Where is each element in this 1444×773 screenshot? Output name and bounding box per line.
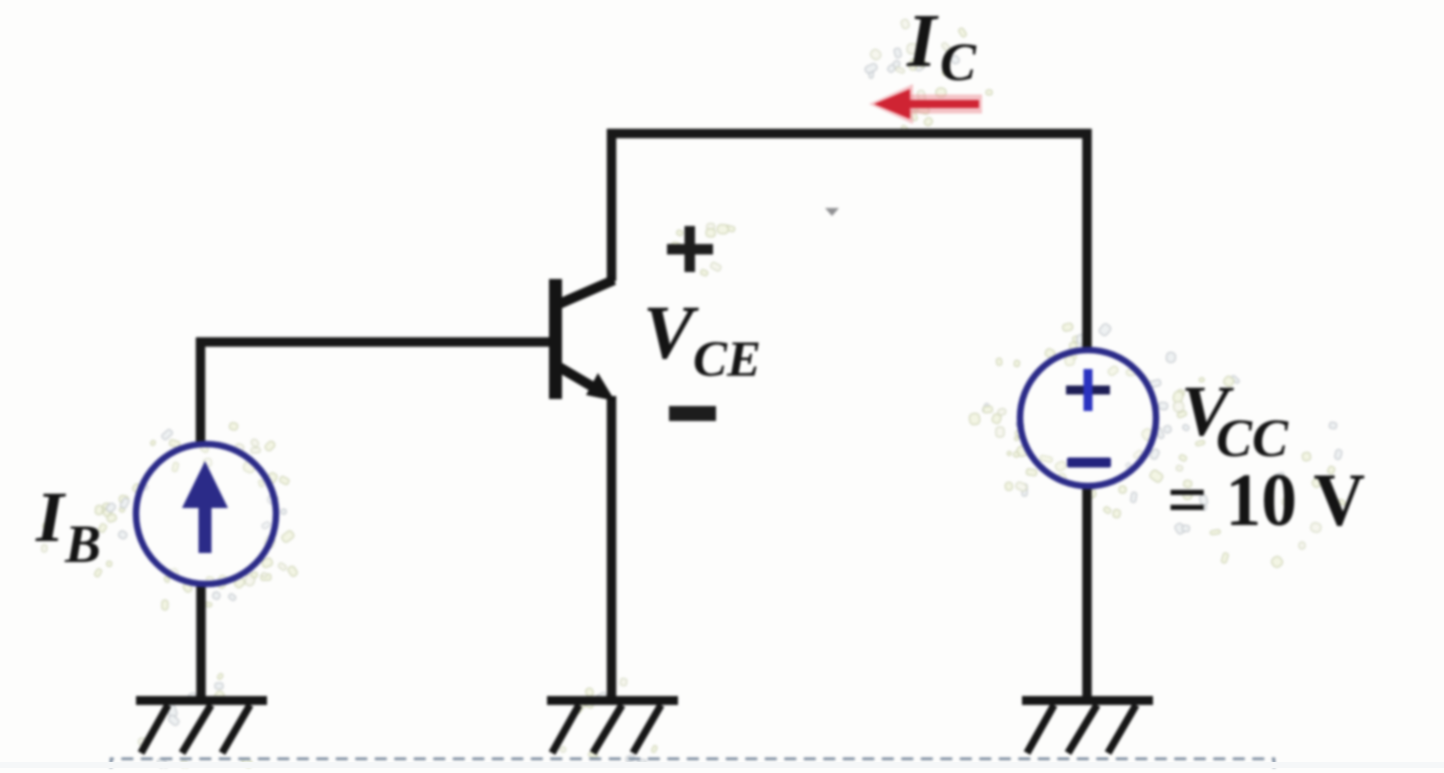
svg-text:= 10 V: = 10 V bbox=[1167, 459, 1365, 542]
svg-text:CE: CE bbox=[693, 332, 761, 388]
svg-text:V: V bbox=[643, 291, 699, 375]
svg-text:I: I bbox=[35, 477, 67, 557]
svg-text:C: C bbox=[940, 32, 977, 92]
svg-text:I: I bbox=[906, 0, 939, 83]
svg-text:B: B bbox=[64, 514, 101, 574]
